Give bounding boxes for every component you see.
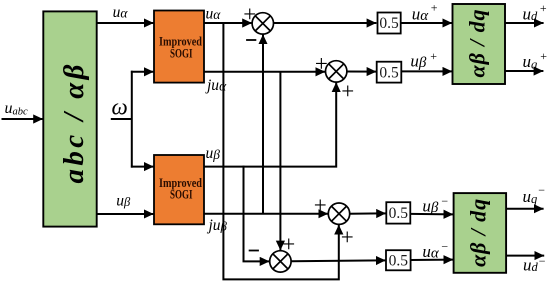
wire ju_alpha drop to sum4 top — [279, 72, 281, 251]
wire u_beta from SOGI2 up into sum2 bottom — [204, 82, 336, 166]
svg-text:uα: uα — [412, 5, 430, 24]
wire gain1 to dq block1 — [401, 22, 453, 24]
svg-text:+: + — [540, 49, 547, 63]
summing junction sum1 — [252, 13, 273, 34]
wire u_beta from abc block to SOGI2 — [97, 213, 154, 215]
sign minus left for sum4 — [249, 250, 259, 252]
block Improved SOGI 1 — [154, 11, 204, 83]
wire ju_alpha from SOGI1 to sum2 — [204, 71, 325, 73]
svg-text:juβ: juβ — [207, 217, 228, 234]
svg-text:+: + — [315, 51, 328, 76]
svg-text:uβ: uβ — [422, 197, 439, 217]
svg-text:0.5: 0.5 — [389, 252, 409, 269]
svg-text:0.5: 0.5 — [379, 15, 399, 32]
wire u_alpha from SOGI1 to sum1 — [204, 22, 252, 24]
svg-text:+: + — [314, 193, 327, 218]
summing junction sum4 — [270, 251, 291, 272]
svg-text:−: − — [539, 254, 546, 268]
svg-text:uα: uα — [206, 6, 222, 23]
wire gain2 to dq block1 — [401, 70, 452, 72]
svg-text:−: − — [441, 239, 448, 253]
sign minus for sum1 — [246, 39, 256, 41]
wire sum4 to gain4 — [291, 259, 386, 262]
svg-text:uβ: uβ — [410, 51, 427, 71]
summing junction sum2 — [326, 61, 347, 82]
svg-text:0.5: 0.5 — [389, 205, 409, 222]
block abc/alphabeta transform — [43, 11, 96, 226]
wire output u_d+ — [505, 22, 544, 24]
svg-text:+: + — [341, 79, 354, 104]
svg-text:SOGI: SOGI — [170, 46, 193, 60]
svg-text:ω: ω — [112, 95, 128, 120]
wire sum2 to gain2 — [347, 71, 377, 73]
gain block 0.5 #1 — [378, 13, 401, 34]
wire ju_beta riser up to sum1 bottom — [262, 34, 264, 213]
svg-text:uβ: uβ — [206, 145, 221, 162]
svg-text:+: + — [431, 1, 438, 15]
wire ju_beta from SOGI2 to sum3 — [204, 213, 328, 215]
block alphabeta/dq #1 — [453, 4, 506, 84]
wire sum1 to gain1 — [274, 22, 377, 24]
wire u_beta drop to sum4 left — [244, 166, 270, 262]
wire u_alpha from abc block to SOGI1 — [97, 22, 154, 24]
svg-text:juα: juα — [205, 77, 227, 94]
svg-text:+: + — [430, 49, 437, 63]
wire gain4 to dq block2 — [411, 259, 454, 261]
svg-text:0.5: 0.5 — [379, 64, 399, 81]
svg-text:αβ / dq: αβ / dq — [466, 199, 491, 267]
wire omega stub — [111, 118, 132, 120]
wire output u_q+ — [505, 70, 543, 72]
svg-text:+: + — [282, 231, 295, 256]
svg-text:+: + — [341, 225, 354, 250]
block Improved SOGI 2 — [154, 155, 204, 224]
gain block 0.5 #3 — [386, 202, 410, 223]
summing junction sum3 — [328, 203, 349, 224]
svg-text:+: + — [243, 1, 256, 26]
wire omega vertical — [131, 71, 133, 168]
svg-text:αβ / dq: αβ / dq — [465, 10, 490, 78]
svg-text:uα: uα — [113, 4, 129, 21]
wire sum3 to gain3 — [350, 212, 386, 214]
wire u_alpha drop down and across to sum3 bottom — [223, 22, 338, 279]
svg-text:uα: uα — [422, 242, 440, 261]
svg-text:uβ: uβ — [116, 192, 131, 209]
wire u_abc input arrow — [2, 118, 44, 120]
wire omega to SOGI2 — [131, 166, 154, 168]
svg-text:+: + — [540, 1, 547, 15]
gain block 0.5 #4 — [386, 250, 411, 270]
svg-text:−: − — [441, 194, 448, 208]
wire omega to SOGI1 — [131, 71, 154, 73]
wire output u_d- — [506, 255, 544, 257]
svg-text:−: − — [538, 183, 545, 197]
wire gain3 to dq block2 — [410, 213, 453, 216]
block alphabeta/dq #2 — [454, 193, 507, 273]
gain block 0.5 #2 — [377, 62, 402, 83]
svg-text:SOGI: SOGI — [170, 187, 193, 201]
wire output u_q- — [506, 208, 543, 210]
